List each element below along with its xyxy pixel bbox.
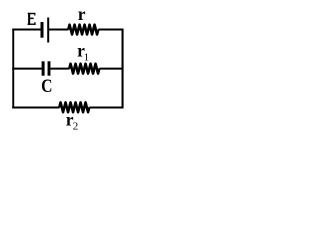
svg-text:2: 2 [73,120,79,132]
wire middle (capacitor to r1) [50,68,69,70]
wire top right (r to corner) [98,29,123,31]
wire left vertical [12,29,14,109]
wire right vertical [122,29,124,109]
wire bottom left (corner to r2) [12,107,59,109]
svg-text:1: 1 [84,51,90,63]
label E [28,13,36,25]
resistor r1 [69,64,99,74]
svg-text:C: C [41,76,52,96]
svg-text:r: r [78,4,86,24]
wire middle right (r1 to right wire) [99,68,123,70]
wire top left (corner to battery) [12,29,41,31]
wire top middle (battery to r) [49,29,69,31]
battery E [42,18,48,43]
wire bottom right (r2 to corner) [89,107,123,109]
resistor r2 [59,102,89,112]
wire middle left (left wire to capacitor) [12,68,42,70]
capacitor C [43,61,49,75]
resistor r [68,25,98,35]
